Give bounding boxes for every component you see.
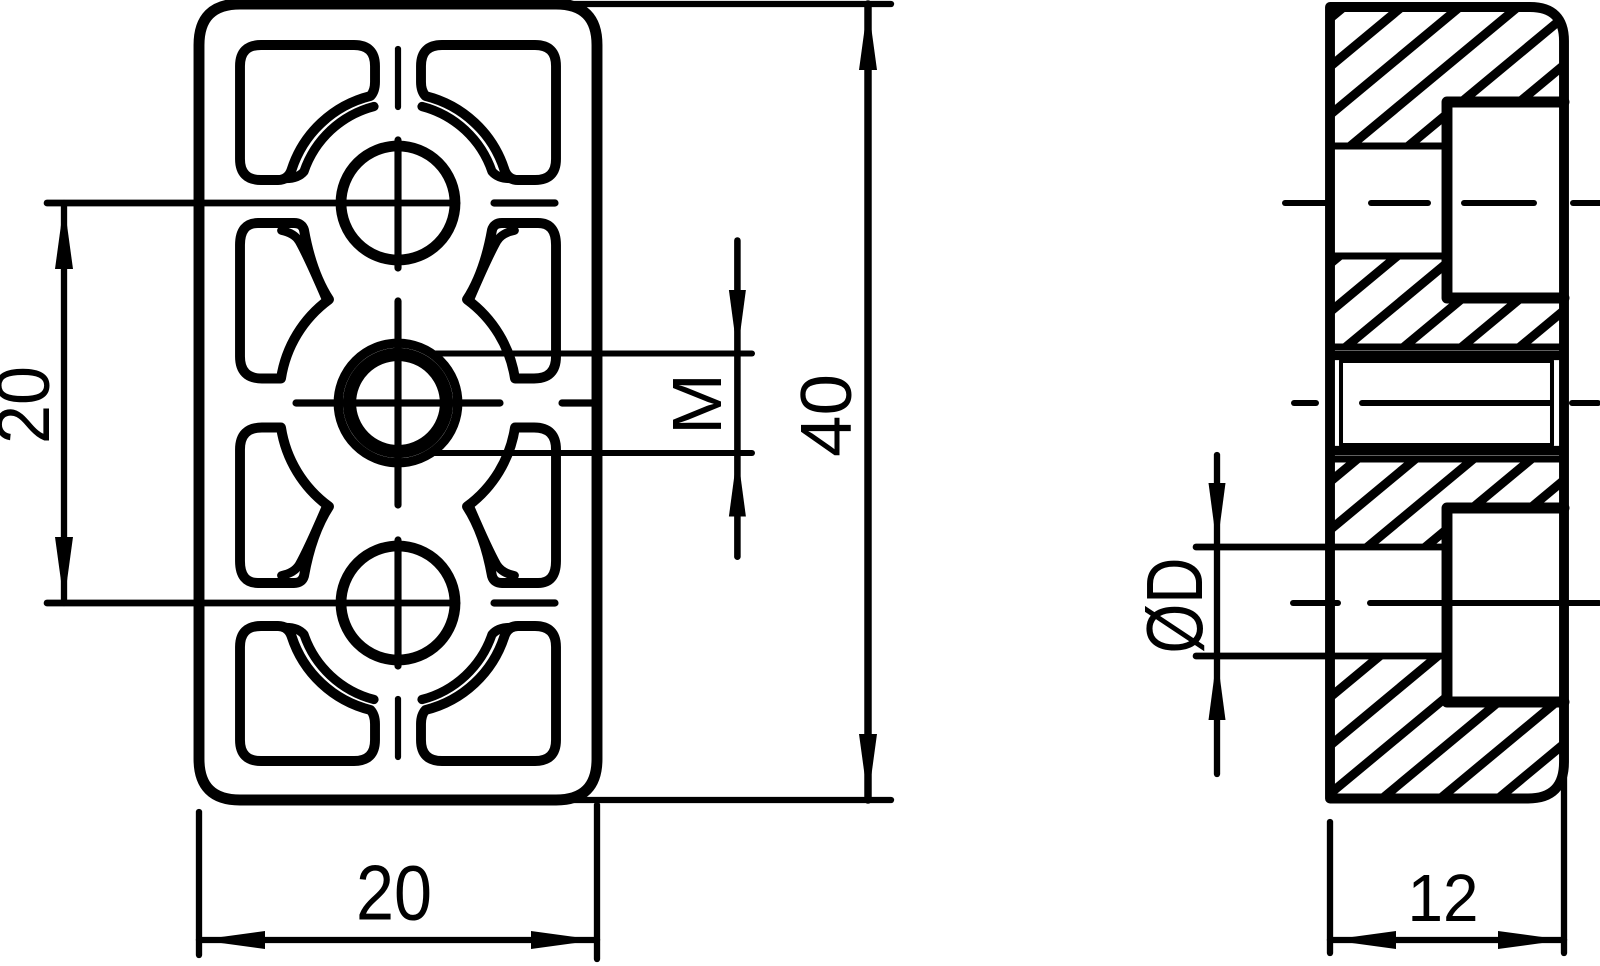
svg-text:20: 20 xyxy=(0,366,65,444)
side view: hatching of top material block xyxy=(1167,0,1600,154)
front view: slot step contour above-right of bottom hole xyxy=(470,507,515,576)
side view: thread minor diameter bottom line xyxy=(1335,446,1560,455)
arrow up onto M bottom extension xyxy=(729,453,746,517)
svg-text:ØD: ØD xyxy=(1130,558,1219,654)
svg-text:12: 12 xyxy=(1408,861,1479,936)
arrow left of bottom 20 dimension xyxy=(199,931,265,949)
side view: bottom hole axis line xyxy=(1370,600,1599,606)
side view: middle hole axis dash right xyxy=(1572,400,1598,406)
front view: bottom hole circle xyxy=(341,546,455,660)
arrow left of 12 dimension xyxy=(1330,931,1396,949)
extension line bottom of M thread dimension xyxy=(430,450,752,456)
arrow down of left 20 dimension xyxy=(55,537,73,603)
extension line bottom right xyxy=(594,805,600,959)
centerline+extension line through bottom hole xyxy=(47,600,457,607)
dimension line 40 height xyxy=(864,4,871,800)
side view: section outline 12mm plate xyxy=(1330,7,1564,799)
centerline+extension line through top hole xyxy=(47,200,457,207)
side view: top hole lower edge xyxy=(1330,253,1447,260)
dimension line M thread xyxy=(734,241,741,557)
vertical centerline of bottom hole xyxy=(394,540,401,666)
front view: left pocket between middle and bottom holes xyxy=(240,428,329,584)
extension line bottom left xyxy=(196,812,202,955)
side view: middle hole axis line xyxy=(1362,400,1550,406)
arrow down onto M top extension xyxy=(729,290,746,354)
side view: thread bore bottom boundary xyxy=(1330,456,1564,463)
extension line left for 12 dimension xyxy=(1327,822,1333,953)
front view: slot step contour above-left of bottom hole xyxy=(282,507,327,576)
front view: bottom-right corner pocket outline xyxy=(421,626,556,761)
side view: bottom hole axis dash left xyxy=(1293,600,1338,606)
extension line bottom for 40 dimension xyxy=(574,797,891,803)
arrow up onto OD bottom extension xyxy=(1209,656,1226,720)
front view: slot step contour below-left of top hole xyxy=(282,231,327,300)
front view: slot step contour arc upper-right of top hole xyxy=(422,107,510,179)
extension line right for 12 dimension xyxy=(1561,762,1567,953)
side view: hatching of upper-middle material block xyxy=(1220,248,1600,355)
dimension line 20 width bottom xyxy=(199,937,597,943)
front view: slot step contour below-right of top hole xyxy=(470,231,515,300)
side view: thread bore top boundary xyxy=(1330,344,1564,351)
side view: bottom hole upper edge + OD extension xyxy=(1196,544,1442,551)
side view: top hole upper edge xyxy=(1330,143,1447,150)
horizontal centerline of middle hole xyxy=(296,399,500,406)
side view: hatching of lower-middle material block xyxy=(1242,451,1600,555)
side view: rear slot pocket lower xyxy=(1447,508,1564,702)
centerline dash right of middle hole xyxy=(562,399,597,406)
side view: top hole axis dash 1 xyxy=(1285,200,1331,206)
front view: middle threaded hole inner circle xyxy=(350,355,447,452)
front view: saw slit line top center xyxy=(395,49,401,107)
centerline dash right of top hole xyxy=(494,199,555,206)
dimension line 20 (hole spacing) left xyxy=(61,203,67,603)
vertical centerline of top hole xyxy=(394,140,401,268)
side view: bottom hole lower edge + OD extension xyxy=(1196,653,1442,660)
front view: middle threaded hole outer circle xyxy=(338,343,458,463)
arrow down onto OD top extension xyxy=(1209,483,1226,547)
front view: left pocket between top and middle holes xyxy=(240,223,329,379)
dimension line 12 thickness xyxy=(1330,937,1564,943)
front view: right pocket between top and middle holes xyxy=(467,223,556,379)
side view: top hole axis dash 4 xyxy=(1573,200,1600,206)
extension line top for 40 dimension xyxy=(574,1,891,7)
arrow right of 12 dimension xyxy=(1498,931,1564,949)
arrow up of left 20 dimension xyxy=(55,203,73,269)
side view: top hole axis dash 3 xyxy=(1464,200,1534,206)
vertical centerline of middle hole xyxy=(394,301,401,505)
side view: thread major diameter thin rectangle xyxy=(1341,361,1552,445)
side view: top hole axis dash 2 xyxy=(1371,200,1428,206)
extension line top of M thread dimension xyxy=(431,351,752,357)
svg-text:20: 20 xyxy=(356,849,432,937)
front view: slot step contour arc upper-left of top hole xyxy=(286,107,374,179)
arrow up of 40 dimension xyxy=(859,4,877,70)
front view: saw slit line bottom center xyxy=(395,699,401,757)
side view: thread minor diameter top line xyxy=(1335,351,1560,360)
centerline dash right of bottom hole xyxy=(494,599,555,606)
side view: middle hole axis dash left xyxy=(1294,400,1316,406)
arrow right of bottom 20 dimension xyxy=(531,931,597,949)
arrow down of 40 dimension xyxy=(859,734,877,800)
front view: outer profile outline 20x40 rounded rect xyxy=(199,4,597,800)
side view: rear slot pocket upper xyxy=(1447,102,1564,298)
front view: top-left corner pocket outline xyxy=(240,45,375,180)
front view: right pocket between middle and bottom holes xyxy=(467,428,556,584)
front view: slot step contour lower-right of bottom hole xyxy=(422,628,510,700)
front view: slot step contour lower-left of bottom hole xyxy=(286,628,374,700)
svg-text:40: 40 xyxy=(787,374,867,457)
front view: top hole circle xyxy=(341,146,455,260)
side view: hatching of bottom material block xyxy=(1199,648,1600,806)
svg-text:M: M xyxy=(658,373,736,435)
dimension line OD xyxy=(1214,455,1220,774)
front view: top-right corner pocket outline xyxy=(421,45,556,180)
front view: bottom-left corner pocket outline xyxy=(240,626,375,761)
